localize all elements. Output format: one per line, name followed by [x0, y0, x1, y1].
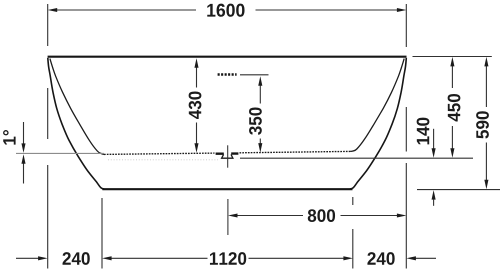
dimension 350: line [259, 83, 261, 145]
tub outer wall right [350, 58, 406, 189]
dimension 450: arrow down [450, 148, 454, 158]
tub inner wall right [350, 59, 404, 152]
dimension 1600: extension line left [47, 4, 49, 46]
bottom extension line at left foot [101, 198, 103, 269]
dimension 240 left: label [63, 252, 90, 265]
drain sump trapezoid [222, 154, 233, 158]
drain centerline [227, 145, 229, 167]
dimension 350: label [249, 107, 262, 134]
horizontal reference line left (gray) [16, 152, 104, 154]
tub inner wall left [50, 59, 104, 155]
dimension 350: arrow up [258, 76, 262, 86]
dimension 140: label [417, 118, 430, 145]
dimension 240 left: outside arrow pointing right [38, 256, 48, 260]
dimension 1120: arrow right [343, 256, 353, 260]
dimension 590: label [476, 111, 489, 138]
dimension 1deg: line lower [23, 163, 25, 184]
dimension 1deg: arrow up [21, 154, 25, 164]
dimension 430: arrow up [194, 58, 198, 67]
dimension 140: arrow up (at floor) [432, 190, 436, 200]
dimension 1120: label [210, 252, 246, 265]
drain symbol bars [216, 152, 239, 154]
tub outer bottom [102, 188, 352, 190]
dimension 590: arrow down [484, 180, 488, 190]
dimension 800: label [308, 209, 335, 222]
dimension 240 right: outside arrow pointing left [406, 256, 416, 260]
overflow symbol (dotted) [218, 73, 237, 76]
bottom extension line at tub right edge [405, 107, 407, 269]
dimension 800: arrow left [228, 213, 238, 217]
dimension 240 right: label [367, 252, 394, 265]
faint inner-bottom slope dotted line [108, 159, 218, 161]
dimension 450: arrow up [450, 57, 454, 67]
dimension 1600: arrow right [397, 8, 407, 12]
dimension 800: line [237, 215, 399, 217]
dimension 1600: extension line right [405, 4, 407, 47]
dimension 1deg: arrow down [21, 143, 25, 153]
dimension 1120: arrow left [102, 256, 112, 260]
dimension 140: arrow down (at sump level) [432, 148, 436, 158]
floor level extension line right [417, 189, 500, 191]
dimension 1deg: line upper [23, 122, 25, 145]
dimension 450: label [448, 94, 461, 122]
dimension 1600: line [57, 9, 399, 11]
tub inner bottom dashed (slopes toward drain) [104, 153, 215, 154]
dimension 1deg: label [3, 130, 16, 145]
dimension 450: line [451, 65, 453, 150]
overflow level extension line [240, 74, 269, 76]
dimension 350: arrow down [258, 143, 262, 153]
sump level line (drain bottom) extended right [240, 157, 473, 159]
bottom dimension line segments [16, 257, 436, 259]
dimension 140: line lower [433, 199, 435, 206]
dimension 140: line upper [433, 129, 435, 150]
rim level extension line right [413, 56, 492, 58]
dimension 590: line [485, 65, 487, 182]
tub rim top line [48, 56, 407, 58]
bottom extension line at tub left edge [47, 88, 49, 269]
dimension 800: arrow right [397, 213, 407, 217]
dimension 430: label [189, 91, 202, 119]
dimension 430: arrow down [194, 143, 198, 153]
dimension 590: arrow up [484, 57, 488, 67]
dimension 1600: arrow left [48, 8, 58, 12]
dimension 1600: label [207, 4, 244, 17]
bottom extension line at right foot [352, 197, 354, 269]
dimension 430: line [196, 65, 198, 145]
tub outer wall left [48, 58, 104, 189]
drain extension line below tub [227, 199, 229, 235]
